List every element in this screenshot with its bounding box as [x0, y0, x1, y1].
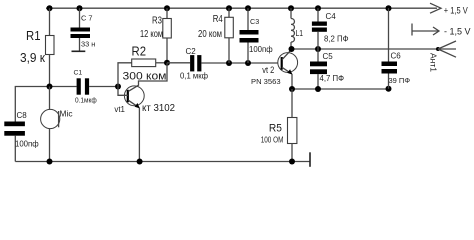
svg-text:R2: R2 [132, 43, 147, 58]
resistor R1 [46, 8, 55, 86]
capacitor C6 [382, 8, 398, 89]
svg-text:100пф: 100пф [249, 45, 273, 54]
terminal bar at end of bottom rail [309, 152, 311, 167]
terminal bar under C7 [72, 50, 86, 52]
junction: rail / R3 top [164, 5, 170, 11]
junction: rail / R4 top [226, 5, 232, 11]
junction: bottom rail / mic bottom [47, 159, 53, 165]
wire: ground/negative bottom rail [15, 161, 310, 163]
capacitor C7 [71, 8, 91, 51]
svg-text:R3: R3 [152, 15, 162, 26]
junction: bottom rail / VT1 emitter [137, 159, 143, 165]
wire: VT2 emitter node [292, 88, 389, 90]
inductor L1 [291, 8, 294, 49]
resistor R2 [118, 59, 167, 87]
svg-text:vt 2: vt 2 [262, 65, 274, 75]
svg-text:C6: C6 [391, 51, 402, 60]
svg-text:- 1,5 V: - 1,5 V [444, 27, 471, 37]
power terminal +1,5 V arrow [430, 3, 468, 16]
svg-text:Mic: Mic [60, 110, 73, 119]
svg-text:кт 3102: кт 3102 [142, 103, 175, 114]
svg-text:39 ПФ: 39 ПФ [389, 76, 411, 85]
svg-text:R4: R4 [213, 14, 223, 25]
svg-text:0.1мкф: 0.1мкф [75, 97, 97, 104]
wire: audio node (R1 bottom / mic / C8 / C1 left) [15, 87, 76, 122]
junction: R2/R3/C2/VT1 collector node [164, 60, 170, 66]
svg-text:vt1: vt1 [114, 104, 125, 114]
junction: bottom rail / R5 bottom [289, 159, 295, 165]
resistor R4 [225, 8, 234, 63]
svg-text:C8: C8 [17, 111, 28, 120]
capacitor C5 [310, 49, 327, 89]
junction: audio wire / mic top [47, 84, 53, 90]
junction: rail / R1 top [47, 5, 53, 11]
capacitor C4 [312, 8, 327, 49]
svg-text:L1: L1 [296, 28, 304, 38]
svg-text:C3: C3 [250, 17, 259, 26]
power terminal -1,5 V arrow [412, 24, 471, 37]
junction: base node / C3 bottom [245, 60, 251, 66]
svg-text:PN 3563: PN 3563 [251, 77, 281, 86]
transistor VT1 (KT3102, NPN) [118, 63, 167, 162]
capacitor C2 [167, 55, 201, 71]
junction: rail / C3 top [245, 5, 251, 11]
resistor R5 [288, 89, 297, 162]
junction: L1 bottom / VT2 collector [289, 46, 295, 52]
svg-text:100 ОМ: 100 ОМ [261, 134, 284, 144]
wire: +1.5V top supply rail [46, 7, 437, 9]
junction: rail / C4 top [315, 5, 321, 11]
svg-text:C2: C2 [186, 47, 197, 56]
svg-text:20 ком: 20 ком [198, 29, 222, 40]
svg-text:C1: C1 [74, 70, 83, 77]
junction: rail / C6 top [386, 5, 392, 11]
microphone Mic [41, 87, 60, 162]
junction: emitter node / R5 top [289, 86, 295, 92]
svg-text:33 н: 33 н [81, 39, 95, 48]
svg-text:0,1 мкф: 0,1 мкф [180, 70, 208, 80]
junction: rail / C7 top [77, 5, 83, 11]
junction: C1 / R2 / VT1 base node [115, 84, 121, 90]
transistor VT2 (PN3563, NPN) [278, 50, 298, 90]
junction: base node / R4 bottom [226, 60, 232, 66]
junction: rail / L1 top [288, 5, 294, 11]
antenna Ант1 [436, 41, 456, 57]
svg-text:Ант1: Ант1 [429, 53, 439, 72]
svg-text:100пф: 100пф [15, 139, 39, 148]
capacitor C1 [77, 78, 118, 94]
svg-text:R1: R1 [26, 28, 41, 43]
wire: collector tank node to antenna [292, 48, 439, 50]
svg-text:C4: C4 [326, 12, 337, 21]
svg-text:+ 1,5 V: + 1,5 V [444, 6, 468, 16]
svg-text:3,9 к: 3,9 к [20, 50, 45, 65]
junction: tank node / C4-C5 [315, 46, 321, 52]
svg-text:12 ком: 12 ком [140, 29, 163, 40]
capacitor C8 [4, 122, 25, 162]
svg-text:C5: C5 [323, 52, 334, 61]
junction: emitter node / C6 bottom [386, 86, 392, 92]
junction: emitter node / C5 bottom [315, 86, 321, 92]
resistor R3 [163, 8, 172, 63]
svg-text:R5: R5 [269, 123, 282, 135]
svg-text:8,2 ПФ: 8,2 ПФ [324, 35, 349, 44]
svg-text:4,7 ПФ: 4,7 ПФ [320, 74, 345, 83]
svg-text:C 7: C 7 [81, 14, 93, 23]
wire: VT2 base node [201, 62, 281, 64]
capacitor C3 [240, 8, 259, 63]
